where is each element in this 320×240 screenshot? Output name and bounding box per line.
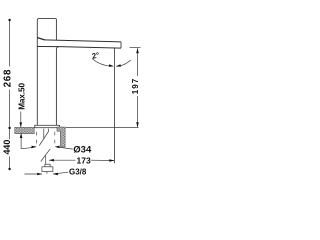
diameter 34 left arrow (pointing right at hole line) bbox=[31, 146, 36, 149]
water stream axis line bbox=[114, 48, 116, 163]
197 up arrow bbox=[136, 48, 139, 53]
hose lower right wall vertical bbox=[45, 156, 47, 164]
hose upper diagonal bbox=[39, 132, 48, 146]
svg-text:Max.50: Max.50 bbox=[17, 83, 26, 110]
diameter 34 right line to label bbox=[59, 147, 73, 149]
countertop right section (hatched, stepped) bbox=[57, 127, 65, 147]
svg-text:197: 197 bbox=[131, 78, 140, 94]
svg-text:268: 268 bbox=[3, 69, 14, 88]
faucet body column right edge with fillet bbox=[56, 47, 59, 126]
hole projection dashed line right bbox=[54, 132, 56, 146]
deck top reference line extended right bbox=[66, 127, 139, 129]
svg-text:G3/8: G3/8 bbox=[69, 167, 87, 176]
dimension 197 top tick bbox=[130, 47, 141, 49]
faucet spout tip edge bbox=[120, 42, 122, 48]
hose crimp collar bbox=[45, 164, 50, 167]
2 degree angle arc right branch with arrow bbox=[117, 60, 131, 66]
hose upper left wall (vertical below flange) bbox=[43, 129, 45, 140]
dimension 173 line with outward arrows bbox=[49, 159, 114, 161]
svg-text:Ø34: Ø34 bbox=[73, 145, 92, 156]
fitting outlet stub bbox=[46, 172, 48, 174]
faucet base flange bbox=[35, 125, 60, 127]
dim dot middle (deck level) bbox=[8, 127, 10, 129]
svg-text:173: 173 bbox=[77, 155, 91, 165]
faucet left profile and handle outline bbox=[37, 19, 56, 126]
dim dot top bbox=[8, 19, 10, 21]
faucet spout top edge bbox=[44, 40, 121, 42]
G3/8 fitting body bbox=[42, 167, 53, 172]
svg-text:440: 440 bbox=[2, 140, 12, 155]
diameter 34 right arrow (pointing left at hole line) bbox=[55, 146, 60, 149]
dimension 197 vertical line bbox=[137, 48, 139, 127]
hole projection dashed line left bbox=[35, 132, 37, 146]
Max.50 lower arrow (up to deck bottom) joining diameter line bbox=[21, 134, 36, 149]
handle lever chamfer bbox=[37, 38, 44, 40]
197 down arrow bbox=[136, 122, 139, 127]
Max.50 upper arrow (down to deck top) bbox=[20, 112, 22, 128]
hose upper right wall (vertical below flange) bbox=[48, 129, 50, 132]
countertop left section (hatched) bbox=[15, 127, 34, 133]
dim dot bottom bbox=[8, 168, 10, 170]
dimension line 268/440 vertical bbox=[9, 20, 11, 169]
faucet spout bottom edge / shoulder bbox=[37, 47, 121, 49]
hose lower diagonal bbox=[41, 149, 50, 162]
dimension G3/8 arrows bbox=[24, 172, 68, 174]
2 degree angle arc left branch with arrow bbox=[92, 59, 112, 67]
